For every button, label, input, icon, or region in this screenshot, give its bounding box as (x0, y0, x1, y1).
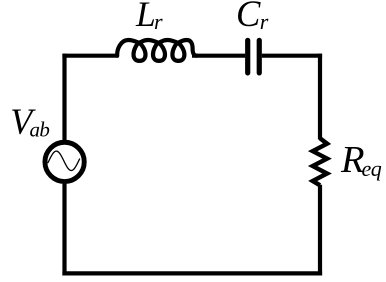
wire: source bottom to bottom-left corner (62, 181, 66, 276)
wire: right vertical (top corner to resistor) (318, 54, 322, 140)
resistor R_eq zigzag (313, 138, 327, 185)
AC source sine wave (48, 151, 80, 170)
svg-text:r: r (154, 9, 163, 34)
svg-text:L: L (135, 0, 156, 34)
inductor L_r coil (117, 40, 197, 61)
svg-text:r: r (260, 9, 269, 34)
wire: left vertical segment (top corner to source top) (62, 54, 66, 143)
wire: resistor to bottom-right corner (318, 185, 322, 276)
wire: inductor to capacitor (192, 54, 245, 58)
svg-text:C: C (236, 0, 261, 34)
svg-text:ab: ab (30, 118, 50, 142)
capacitor C_r right plate (257, 40, 262, 73)
AC source V_ab circle (45, 142, 84, 181)
wire: capacitor to top-right corner (262, 54, 322, 58)
wire: bottom horizontal (62, 271, 322, 275)
wire: top-left horizontal segment (corner to inductor) (62, 54, 118, 58)
capacitor C_r left plate (245, 40, 250, 73)
svg-text:eq: eq (362, 156, 382, 181)
